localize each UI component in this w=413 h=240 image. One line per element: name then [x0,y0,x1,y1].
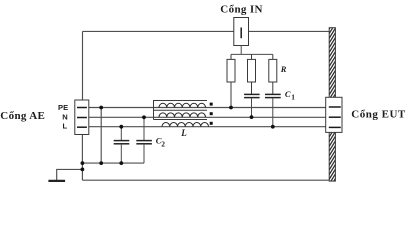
capacitor C1 (right) [265,94,281,97]
svg-text:1: 1 [291,92,295,101]
ground [48,180,65,182]
node earth branch [81,168,85,172]
node L to R3/C1 [271,125,275,129]
terminal stub inside IN port [240,28,242,39]
svg-text:Cổng IN: Cổng IN [220,3,262,15]
wire L line [89,126,326,128]
wire ground drop [81,163,83,180]
wire below AE port to ground bus [81,135,83,164]
wire bottom line to wall [82,179,329,181]
svg-text:R: R [280,64,287,74]
EUT terminal N [329,116,341,118]
inductor L: core lines [154,101,208,120]
svg-text:L: L [62,122,67,131]
node ground bus at C2 left [119,161,123,165]
AE terminal N [77,117,87,119]
capacitor C2 (right) [143,117,145,140]
inductor winding on L [162,123,209,127]
svg-text:N: N [62,112,67,121]
node PE to R1 [229,106,233,110]
port box Cong AE [75,100,89,135]
node PE drop [99,106,103,110]
wire ground bus [82,162,144,164]
node ground bus at PE drop [99,161,103,165]
wire top rail [83,30,330,32]
resistor R (left of three) [227,54,235,107]
wire IN port down to resistor bus [240,46,242,55]
hatched wall (reference ground plane) [328,12,337,196]
wire branch to earth symbol [57,169,83,180]
node ground bus at AE drop [81,161,85,165]
capacitor C1 (left) [244,94,260,97]
svg-text:C: C [285,89,291,99]
node N to C2 right [142,115,146,119]
node L to C2 left [119,125,123,129]
AE terminal L [77,126,87,128]
port box Cong IN [234,18,249,46]
polarity dot winding PE [210,103,213,106]
node N to R2/C1 [250,115,254,119]
capacitor C2 (left) [120,127,122,140]
resistor R (right of three) [269,54,277,94]
resistor R (middle of three) [248,54,256,94]
inductor winding on PE [159,103,206,107]
svg-text:Cổng AE: Cổng AE [0,110,45,122]
wire PE drop to ground bus [100,108,102,164]
svg-text:L: L [180,128,187,138]
wire resistor bus [231,53,273,55]
EUT terminal L [329,126,341,128]
inductor winding on N [159,113,206,117]
wire N line [89,116,326,118]
wire left vertical from top rail to AE port [82,31,84,100]
port box Cong EUT [326,97,342,132]
AE terminal PE [77,107,87,109]
svg-text:2: 2 [161,140,165,149]
EUT terminal PE [329,106,341,108]
svg-text:Cổng EUT: Cổng EUT [351,108,406,120]
svg-text:PE: PE [58,103,68,112]
wire PE line [89,107,326,109]
polarity dot winding L [210,122,213,125]
polarity dot winding N [210,112,213,115]
